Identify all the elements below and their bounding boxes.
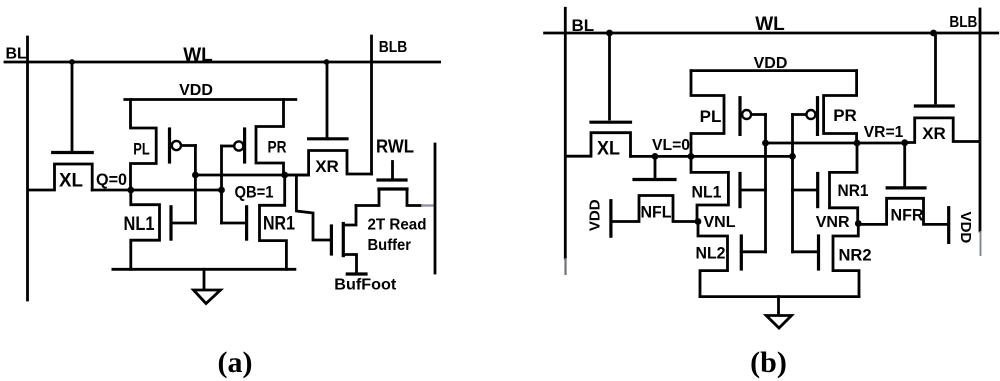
- node Q / PR-NR1 gate junction: [218, 187, 225, 194]
- svg-text:BL: BL: [6, 46, 28, 63]
- transistor NL2 (b): [696, 222, 766, 297]
- transistor read-buffer driver: [331, 206, 356, 275]
- svg-text:(a): (a): [218, 346, 253, 379]
- svg-text:NL1: NL1: [124, 214, 155, 235]
- transistor NFL: [613, 156, 698, 221]
- transistor NL1: [124, 190, 196, 269]
- svg-text:VL=0: VL=0: [652, 137, 690, 154]
- svg-text:NR1: NR1: [838, 181, 869, 200]
- svg-text:BLB: BLB: [949, 14, 977, 31]
- transistor NR1 (b): [793, 143, 869, 224]
- terminal VDD left: [586, 199, 611, 236]
- svg-text:PR: PR: [268, 138, 287, 157]
- svg-text:RWL: RWL: [376, 137, 414, 157]
- wire cross-couple left: PL/NL1 gates to QB: [194, 146, 197, 224]
- transistor PL (b): [691, 71, 766, 157]
- transistor XL (a): [28, 62, 92, 192]
- svg-text:VDD: VDD: [957, 212, 974, 244]
- svg-text:XR: XR: [922, 124, 946, 143]
- svg-text:VDD: VDD: [586, 199, 603, 231]
- node VNR: [855, 220, 862, 227]
- svg-text:VDD: VDD: [754, 55, 788, 72]
- svg-text:BLB: BLB: [379, 39, 408, 56]
- svg-text:XL: XL: [59, 171, 83, 192]
- svg-text:XR: XR: [315, 157, 339, 176]
- transistor PL: [131, 100, 196, 191]
- node VNL: [695, 218, 702, 225]
- svg-text:NFL: NFL: [641, 203, 672, 222]
- svg-text:NL2: NL2: [696, 244, 726, 263]
- svg-text:QB=1: QB=1: [235, 183, 274, 202]
- wire BL (a): [26, 37, 29, 300]
- node VR / XR-NFR junction: [901, 139, 908, 146]
- svg-text:Q=0: Q=0: [96, 170, 127, 189]
- svg-text:NR1: NR1: [263, 214, 295, 235]
- transistor NL1 (b): [691, 156, 766, 221]
- wire cross-couple right: PR/NR1 gates to Q: [220, 146, 223, 223]
- svg-text:NFR: NFR: [891, 206, 924, 225]
- node VR / PR-NR1 drain junction: [854, 140, 861, 147]
- svg-text:VNR: VNR: [816, 214, 850, 231]
- node QB / PR-NR1 drain junction: [281, 172, 288, 179]
- svg-text:VNL: VNL: [704, 214, 736, 231]
- transistor NR1: [222, 175, 296, 269]
- wire VDD rail (b): [691, 69, 857, 72]
- wire QB to read-buffer gate: [296, 175, 328, 240]
- label 2T Read Buffer: [368, 217, 427, 255]
- svg-text:PR: PR: [833, 106, 857, 125]
- svg-text:VR=1: VR=1: [864, 124, 904, 141]
- svg-text:PL: PL: [700, 107, 722, 126]
- svg-text:2T Read: 2T Read: [368, 217, 427, 234]
- svg-text:NR2: NR2: [839, 246, 872, 265]
- wire node QB: [195, 174, 308, 177]
- ground (b): [766, 297, 791, 328]
- node XL gate on WL (b): [606, 30, 613, 37]
- svg-text:PL: PL: [133, 140, 150, 159]
- wire node VL: [631, 155, 793, 158]
- transistor NR2 (b): [793, 224, 872, 297]
- svg-text:VDD: VDD: [179, 82, 213, 99]
- transistor XR: [285, 62, 372, 176]
- node VL / PR-NR gate junction: [789, 153, 796, 160]
- wire BL (b): [564, 8, 567, 258]
- node VR left junction: [762, 140, 769, 147]
- svg-text:BufFoot: BufFoot: [334, 277, 397, 294]
- svg-text:BL: BL: [572, 16, 595, 35]
- transistor XR (b): [905, 33, 978, 143]
- wire BLB (a): [370, 36, 373, 174]
- wire node Q: [92, 189, 221, 192]
- wire VDD rail (a): [125, 98, 296, 101]
- node VL / NFL gate junction: [652, 153, 659, 160]
- wire WL (a): [5, 61, 440, 64]
- svg-text:(b): (b): [750, 346, 787, 379]
- node VL / PL-NL1 drain junction: [688, 153, 695, 160]
- wire BLB (b): [979, 9, 982, 231]
- terminal BufFoot: [347, 272, 366, 275]
- svg-text:XL: XL: [597, 139, 620, 160]
- wire read bitline (a): [434, 144, 437, 273]
- transistor PR (b): [793, 71, 857, 143]
- node QB gate junction: [192, 172, 199, 179]
- wire node VR: [766, 142, 906, 145]
- wire cross-couple right (b): PR/NR gates: [791, 115, 794, 252]
- svg-text:NL1: NL1: [692, 183, 722, 202]
- wire cross-couple left (b): PL/NL gates: [764, 115, 767, 252]
- node Q / PL-NL1 drain junction: [127, 187, 134, 194]
- svg-text:WL: WL: [755, 14, 785, 35]
- wire WL (b): [545, 32, 998, 35]
- transistor NFR: [861, 143, 948, 225]
- node XR gate on WL (a): [324, 59, 330, 65]
- transistor PR: [222, 100, 287, 176]
- wire ground rail (b): [700, 295, 859, 298]
- node XR gate on WL (b): [930, 30, 937, 37]
- transistor RWL: [356, 137, 435, 206]
- node XL gate on WL (a): [69, 59, 75, 65]
- svg-text:WL: WL: [183, 45, 213, 66]
- svg-text:Buffer: Buffer: [368, 237, 412, 254]
- transistor XL (b): [566, 33, 631, 160]
- ground (a): [194, 269, 221, 303]
- wire ground rail (a): [113, 268, 295, 271]
- terminal VDD right: [949, 208, 975, 244]
